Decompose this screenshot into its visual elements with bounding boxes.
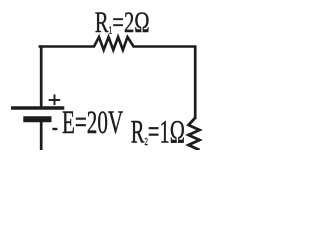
svg-text:R1=2Ω: R1=2Ω bbox=[95, 5, 150, 39]
svg-text:E=20V: E=20V bbox=[62, 105, 123, 141]
svg-text:R2=1Ω: R2=1Ω bbox=[131, 114, 185, 150]
